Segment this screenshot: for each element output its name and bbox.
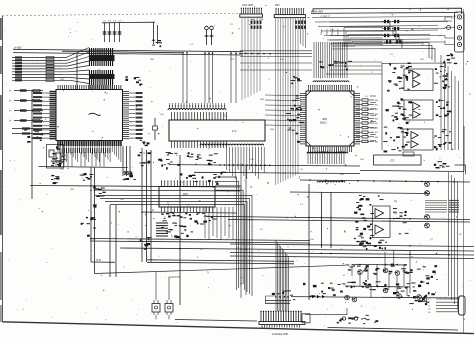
wire J1 horizontal (91, 261, 115, 263)
wire top right upper (313, 8, 462, 14)
wire bottom y300 (265, 299, 291, 301)
wires RA to IC1 (90, 85, 113, 89)
right bus verticals going down (449, 172, 458, 308)
scanner edge artifacts left (0, 18, 2, 322)
U7 surrounding cluster (383, 127, 410, 152)
op-amp U5B (413, 80, 420, 88)
connector CN right-bottom (459, 296, 466, 315)
wires labels to transistor pairs (344, 28, 383, 45)
relay K1 pins (154, 300, 158, 315)
bottom-right components cluster A (345, 264, 413, 274)
cap cluster above comparator (356, 195, 383, 206)
wire bottom right y327 (328, 328, 458, 331)
resistor array RA1 dark comb (90, 48, 113, 66)
sub cluster xtal2 (51, 175, 59, 184)
electrolytic capacitor C21 (205, 26, 209, 45)
svg-text:C),: C), (394, 200, 398, 203)
vertical wire x410 (409, 250, 411, 293)
transistor Q12 (395, 271, 400, 276)
transistor Q14 (397, 294, 402, 299)
bus line y217 long (208, 216, 470, 219)
transistor QR1 (425, 182, 430, 187)
vertical bus bundle center extra (241, 163, 246, 298)
bottom-right components cluster D (417, 265, 437, 287)
transistor Q15 (345, 295, 350, 300)
svg-text:J--: J-- (240, 275, 243, 279)
svg-text:10K: 10K (280, 59, 284, 61)
vertical wire x32 (31, 90, 33, 199)
CN2 right drops (301, 18, 306, 48)
bus corner turns y177-190 (215, 177, 243, 290)
IC U4 pins top (161, 180, 213, 186)
wire A-5V top bus (13, 14, 415, 52)
op-amp U8B (375, 225, 384, 234)
electrolytic capacitor C22 (210, 26, 214, 45)
IC U3 pins right (354, 94, 359, 144)
connector CN2 pins above (275, 8, 304, 14)
comb below IC U3 (308, 151, 344, 164)
bus line y192 (290, 192, 430, 194)
relay K1 riser wire (155, 272, 157, 300)
bus fan diagonal (62, 48, 89, 84)
op-amp U6 group box (404, 100, 433, 120)
left connector group 3 (12, 127, 50, 134)
wires CN area to IC3 comb (240, 57, 312, 71)
relay drop wires to bottom bus (156, 315, 169, 319)
resistor loop row below IC2 (200, 144, 264, 145)
relay K2 box (165, 304, 173, 313)
bus line y248 long (120, 248, 474, 251)
wires from U3 to top-right (330, 22, 402, 48)
op-amp U7B (411, 141, 418, 149)
border frame bottom (3, 322, 474, 334)
connector CN2 body bar (274, 15, 305, 18)
IC U3 pins left (301, 94, 306, 144)
transistor Q16 (352, 297, 357, 302)
IC U1 pins bottom ladder (57, 141, 122, 147)
cluster left of U3 (286, 95, 304, 143)
IC U3 QFP body (306, 91, 354, 146)
wire top bus 2 (13, 53, 243, 55)
svg-text:Cdrive: Cdrive (320, 28, 323, 35)
border frame top (2, 14, 160, 16)
IC U1 left pin labels (33, 92, 50, 139)
vertical labels top right (320, 28, 340, 35)
wires transistor pairs to connector (401, 17, 455, 45)
IC U1 pins right (123, 92, 130, 139)
resistor column right of U3 (356, 99, 379, 144)
wire collector below U1 (39, 167, 129, 168)
wire vertical x77 (76, 53, 78, 90)
op-amp U5A (413, 71, 420, 79)
crystal circuit cluster (47, 145, 64, 169)
CN2 below components dark pairs (295, 21, 306, 29)
IC U1 pins top (58, 85, 121, 90)
resistor loop row y182 (317, 181, 345, 182)
wire corner step right (455, 165, 466, 174)
resistor pair R vertical near x156 (157, 25, 159, 44)
wire comb CN2 drops long bundle (276, 18, 299, 185)
svg-text:65012: 65012 (320, 122, 327, 125)
diode row y296 (312, 295, 325, 298)
wire cap feed top (102, 21, 155, 24)
connector CN right-top circles (455, 12, 465, 52)
comb above IC U3 (314, 42, 347, 78)
transistor Q17 (417, 295, 422, 300)
comparator block outline (373, 206, 391, 238)
wires into analog block left (240, 51, 382, 74)
rail y180 long with dots (300, 180, 470, 182)
vertical wire x393 to rail (393, 250, 395, 264)
svg-text:22K: 22K (140, 129, 144, 131)
left connector group 2 (9, 89, 43, 123)
svg-text:SC: SC (459, 234, 462, 236)
cluster below IC U4 row2 (161, 222, 204, 238)
transistor QR2 (425, 191, 430, 196)
svg-text:17c: 17c (232, 129, 237, 133)
connector CN right-bottom wires (428, 299, 459, 314)
vertical wire right x464 (463, 126, 465, 171)
cluster top-left corner of U3 (291, 77, 302, 85)
svg-text:A-SCALE UNIT: A-SCALE UNIT (272, 333, 289, 336)
IC U1 bottom pin wires (58, 146, 121, 162)
resistor loop row above IC2 (168, 109, 226, 110)
transistor Q13 (383, 288, 388, 293)
bus line y186 (30, 186, 240, 188)
IC U2 pins bottom (172, 141, 227, 148)
IC U3 pins top (309, 86, 352, 91)
scattered small value labels (60, 24, 434, 251)
wire top right long (311, 12, 458, 13)
junction dots on rails (90, 52, 450, 298)
svg-text:1uF: 1uF (120, 199, 124, 201)
resistor array RA2 dark comb (90, 70, 113, 85)
transistor pair array top right (382, 20, 403, 44)
rail y172 (194, 172, 360, 173)
vertical feed lines top right labels (344, 28, 354, 47)
vertical wires x142-152 (141, 150, 143, 262)
connector CN1 pins above (241, 8, 262, 14)
wire bottom y296 (291, 297, 460, 298)
vertical wires x321 x331 (321, 192, 323, 248)
rail y165 with junction dots (169, 165, 360, 166)
wire step into connector (266, 296, 276, 303)
cluster below corner turns (443, 53, 457, 64)
bus line y212 (142, 212, 237, 213)
wire bus into middle top (62, 51, 183, 53)
bus line y260 (147, 260, 294, 262)
bottom-right components cluster B (347, 280, 416, 294)
transistor Q11 (383, 268, 388, 273)
capacitor row above IC U4 (180, 172, 227, 185)
vertical bundle to bottom connector (276, 240, 288, 311)
inductor circles bottom (342, 317, 357, 320)
capacitor bank C11-C14 (103, 21, 122, 43)
transistor Q10 (358, 270, 363, 275)
connector CN1 body bar (240, 14, 263, 17)
left resistor labels column analog (365, 96, 376, 143)
wire to bottom connector (175, 320, 257, 322)
svg-text:10K: 10K (360, 159, 364, 161)
wire bottom y303 (265, 302, 290, 304)
svg-text:J--: J-- (240, 281, 243, 285)
op-amp U7 group box (403, 129, 433, 150)
svg-text:uPD: uPD (322, 117, 327, 121)
relay K1 box (152, 304, 160, 313)
wire comb CN1 drops to IC2 (242, 17, 260, 100)
svg-text:10K: 10K (250, 159, 254, 161)
CN1 below components dark pairs (251, 21, 262, 29)
left data bus 9 wires (12, 56, 62, 81)
wire from connector right (305, 308, 347, 315)
comparator right components (393, 209, 409, 234)
rail y170 right half (360, 170, 464, 171)
transistor QR4 (425, 223, 430, 228)
svg-text:Cdrive: Cdrive (326, 28, 329, 35)
U7 right cluster (434, 130, 452, 151)
op-amp U6B (413, 111, 420, 119)
component row y243 (359, 241, 387, 249)
wire long x91 sloped to transistor rail (95, 265, 346, 273)
right bus horizontal lines with labels (425, 200, 459, 213)
component stack mid-left A (80, 173, 94, 181)
U6 surrounding cluster (386, 98, 413, 124)
relay K2 pins (167, 300, 171, 315)
wire cap drop (153, 23, 155, 45)
op-amp U6A (413, 102, 420, 110)
cap pair below comparator (356, 240, 384, 250)
bus bundle y195-206 with corner turns (95, 196, 252, 297)
svg-text:LCD UNIT: LCD UNIT (242, 4, 254, 7)
left of transistors small parts (303, 283, 346, 297)
component cluster right of RA (125, 76, 142, 86)
filter row bottom right (337, 315, 379, 323)
box bottom left of filter (302, 314, 310, 323)
op-amp U5 group box (404, 69, 433, 91)
IC U2 body wide (169, 120, 265, 141)
component stack mid-left B (93, 186, 106, 207)
cluster below IC2 right (207, 154, 218, 166)
component cluster right of U1 (138, 140, 151, 166)
IC U1 right side wires and labels (129, 92, 143, 139)
svg-text:D: D (267, 181, 269, 185)
vertical wire x180 (179, 155, 181, 305)
dots row above IC2 (169, 103, 225, 109)
svg-text:10K: 10K (420, 59, 424, 61)
wires below U1 vertical bundle (56, 152, 104, 167)
svg-text:(>-A5V: (>-A5V (14, 47, 22, 50)
cluster below IC2 mid (187, 152, 202, 159)
IC U3 pins bottom (309, 146, 352, 151)
resistor stack left low (24, 130, 43, 143)
bottom-right components cluster C (400, 292, 435, 305)
analog block outline (381, 63, 383, 150)
vertical wires x123-131 (122, 146, 124, 176)
bus line y219 long (228, 220, 470, 223)
IC U4 pins bottom (162, 207, 213, 212)
wire y264 transistor top rail (352, 263, 407, 266)
svg-text:Jl %: Jl % (96, 258, 102, 262)
vertical bus pair x91x95 (90, 167, 92, 262)
relay K2 riser wire (169, 277, 180, 300)
hatch row below U1 (60, 148, 110, 153)
IC U4 body (159, 187, 215, 208)
bottom mid cluster (272, 291, 296, 300)
svg-text:Y 363 Z: Y 363 Z (320, 15, 330, 19)
border dash continue top (160, 13, 240, 15)
module box right of IC3 bottom (374, 155, 422, 165)
cluster below x123 (123, 172, 136, 180)
connector CN bottom lower ticks (262, 325, 300, 328)
transistor QR3 (425, 215, 430, 220)
small circle component near connector (447, 26, 451, 30)
bus line y244 long (230, 244, 474, 247)
svg-text:KEY: KEY (275, 4, 280, 7)
op-amp U7A (411, 132, 418, 140)
IC U3 corner chamfers (306, 91, 354, 146)
op-amp U8A (375, 209, 384, 218)
short verticals transistor region (352, 252, 407, 298)
transistor Q18 (422, 297, 427, 302)
resistor loop row above IC U3 (313, 81, 349, 82)
cluster below IC U4 row1 (161, 212, 217, 223)
component small box right of U1 (153, 126, 158, 130)
wires top right steps (312, 17, 452, 45)
analog block right bus verticals (441, 55, 459, 150)
svg-text:Cdrive: Cdrive (337, 28, 340, 35)
IC U2 pins top (172, 112, 227, 120)
wires upper right corner turns (332, 43, 435, 63)
small box above module (403, 152, 414, 156)
IC U1 pins left ladder (50, 91, 56, 140)
IC U1 center label (89, 113, 101, 115)
cluster right mid top (434, 162, 450, 169)
vertical drops to IC2 region (183, 52, 236, 103)
bus line y252 long (230, 253, 474, 256)
vertical wires below IC U4 (205, 207, 233, 240)
bus pair y238 (90, 239, 310, 241)
wires IC2 to IC3 left pins (265, 95, 301, 126)
svg-text:(7): (7) (394, 212, 397, 215)
bus line y190 (95, 190, 240, 191)
cluster below IC2 left (158, 153, 180, 170)
svg-text:LT1: LT1 (390, 159, 395, 163)
bus line y256 long (230, 256, 474, 259)
svg-text:22K: 22K (330, 29, 334, 31)
border frame right (463, 9, 465, 333)
bus line y262 (147, 262, 294, 264)
U6 right cluster (436, 99, 452, 116)
component stack mid-left C (81, 217, 97, 237)
IC U1 QFP body (56, 90, 123, 141)
wires below IC2 drop (227, 147, 265, 179)
U5 right cluster 1 (434, 67, 450, 89)
resistor bank left of IC U4 bottom (156, 223, 168, 236)
vertical wire x309 (308, 184, 310, 300)
connector CN bottom pins (260, 311, 301, 322)
resistor loop row below U3 (307, 152, 348, 153)
wire y286 transistor rail2 (345, 286, 410, 287)
vertical wires x110 x116 (109, 205, 111, 277)
comparator left components (354, 206, 375, 239)
cluster near x145 y240 (140, 238, 152, 250)
border frame left (2, 16, 4, 322)
connector CN bottom body bar (259, 322, 305, 325)
svg-text:D: D (307, 195, 309, 199)
analog block top enclosure (382, 63, 445, 68)
component row above U3 (319, 61, 352, 71)
U5 surrounding cluster 1 (387, 63, 413, 92)
